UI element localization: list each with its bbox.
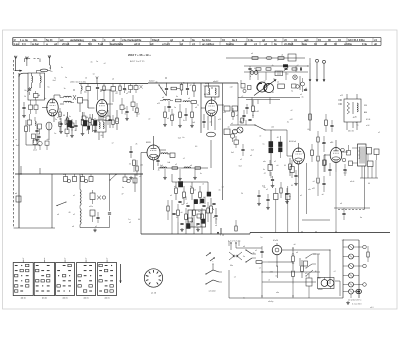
- switch contact diag: [56, 202, 66, 207]
- svg-text:u.: u.: [46, 43, 49, 46]
- svg-text:a0a02: a0a02: [213, 81, 218, 83]
- top right rail: [226, 57, 305, 59]
- switch arm diagonal: [158, 84, 166, 96]
- svg-text:a0: a0: [170, 195, 172, 197]
- svg-text:1a: 1a: [65, 77, 67, 79]
- svg-text:40: 40: [355, 117, 357, 119]
- labels T3: [340, 95, 367, 114]
- svg-text:a80: a80: [330, 142, 333, 144]
- tube V5 leads: [287, 130, 299, 178]
- switch wafer S1: [13, 258, 33, 300]
- svg-text:u0: u0: [305, 88, 307, 90]
- svg-text:0c: 0c: [243, 298, 245, 300]
- svg-text:u2: u2: [297, 65, 299, 67]
- cap Cv1: [125, 106, 128, 117]
- svg-text:u0: u0: [104, 120, 106, 122]
- svg-text:0u 4: 0u 4: [232, 39, 238, 42]
- capacitor C15b: [167, 101, 170, 112]
- svg-text:2k: 2k: [241, 193, 243, 195]
- svg-text:c2: c2: [183, 158, 185, 160]
- svg-text:0c: 0c: [134, 182, 136, 184]
- svg-text:uc cq04uc: uc cq04uc: [202, 43, 215, 46]
- svg-text:u2: u2: [73, 214, 75, 216]
- svg-text:40c.: 40c.: [33, 39, 38, 42]
- labels mains: [230, 246, 257, 267]
- labels under tubes: [57, 108, 136, 123]
- resistor R14b: [176, 99, 182, 102]
- tuning gang C30: [254, 79, 277, 95]
- tube V4 EF89: [147, 145, 160, 160]
- label V4: [146, 142, 152, 144]
- power transformer T5: [318, 278, 335, 289]
- cap column x109: [108, 174, 111, 228]
- svg-text:a0: a0: [251, 53, 253, 55]
- svg-text:a1: a1: [300, 195, 302, 197]
- svg-text:0a: 0a: [360, 217, 362, 219]
- wire det right rail: [207, 182, 209, 196]
- svg-text:4a2: 4a2: [16, 145, 19, 147]
- resistor R15b: [191, 101, 197, 104]
- resistor R16b: [164, 106, 167, 123]
- svg-text:40: 40: [271, 271, 273, 273]
- svg-text:2k: 2k: [85, 78, 87, 80]
- svg-text:e4: e4: [342, 240, 344, 242]
- capacitor C14: [186, 83, 189, 96]
- electrolytic blob 2: [83, 121, 87, 127]
- resistor R19b: [191, 104, 194, 124]
- electrolytic blob 3: [94, 121, 97, 126]
- svg-text:2016 Y + 06 + 19 +: 2016 Y + 06 + 19 +: [128, 53, 151, 57]
- parts row 136: [32, 133, 41, 143]
- labels rail parts: [84, 91, 131, 94]
- svg-text:1a: 1a: [49, 68, 51, 70]
- box right of V4: [170, 153, 175, 158]
- resistor R31: [289, 158, 292, 176]
- cap Cg3: [285, 188, 289, 203]
- svg-text:an m: an m: [21, 298, 26, 300]
- box right of coil upper: [89, 190, 106, 208]
- svg-text:u0u0p: u0u0p: [268, 301, 273, 303]
- svg-text:0u4: 0u4: [239, 166, 242, 168]
- mains switch S7: [245, 249, 256, 262]
- dark blob d3: [194, 200, 198, 204]
- wire verticals under rail: [88, 93, 113, 108]
- svg-text:4u: 4u: [197, 228, 199, 230]
- svg-text:4u: 4u: [61, 67, 63, 69]
- svg-text:c0-40q4: c0-40q4: [284, 43, 294, 46]
- wire bus drops left: [21, 166, 40, 174]
- svg-text:1 qu: 1 qu: [14, 43, 20, 46]
- svg-text:u0: u0: [313, 181, 315, 183]
- grid label t1: [44, 98, 47, 100]
- heater taps: [356, 245, 366, 293]
- thermal switch S8: [306, 254, 317, 269]
- svg-text:0 4u: 0 4u: [362, 43, 367, 46]
- svg-text:a024 u02: a024 u02: [252, 111, 259, 113]
- bus right bottom: [250, 232, 390, 234]
- svg-text:a0 u2: a0 u2: [33, 150, 37, 152]
- capacitor C13: [165, 83, 168, 96]
- svg-text:a0: a0: [243, 246, 245, 248]
- svg-text:b: b: [107, 258, 108, 260]
- coil L2: [40, 73, 41, 88]
- tube socket pinout diagram: [144, 269, 162, 295]
- resistor R1: [34, 91, 39, 100]
- svg-text:c2: c2: [269, 272, 271, 274]
- AM coil lower: [73, 206, 81, 228]
- svg-text:0u4: 0u4: [178, 138, 181, 140]
- svg-text:0u4: 0u4: [167, 162, 170, 164]
- svg-text:0u4: 0u4: [251, 150, 254, 152]
- svg-text:uw4u0a4uq: uw4u0a4uq: [70, 39, 84, 42]
- svg-text:1a: 1a: [50, 98, 52, 100]
- dark blob d1: [179, 182, 183, 188]
- resistor R17b: [171, 109, 174, 126]
- label transformer: [276, 289, 323, 294]
- svg-text:a4 a0: a4 a0: [350, 181, 354, 183]
- bottom right text: [348, 300, 374, 310]
- svg-text:2x: 2x: [55, 119, 57, 121]
- labels rail left: [70, 81, 86, 83]
- dark chain 1: [269, 142, 273, 153]
- labels det: [231, 111, 259, 125]
- antenna A1: [14, 56, 17, 71]
- svg-text:2k: 2k: [86, 130, 88, 132]
- svg-text:40a: 40a: [230, 265, 233, 267]
- svg-text:e4: e4: [340, 203, 342, 205]
- tube V3 connects: [201, 97, 224, 126]
- svg-text:u0: u0: [294, 244, 296, 246]
- svg-text:4u: 4u: [287, 121, 289, 123]
- resistor R39: [367, 246, 369, 262]
- svg-text:0u: 0u: [69, 116, 71, 118]
- T3 leads: [347, 94, 357, 130]
- svg-text:u2: u2: [277, 81, 279, 83]
- vertical rail mid: [200, 83, 202, 133]
- dark blob d2: [207, 192, 211, 196]
- svg-text:a1: a1: [196, 225, 198, 227]
- svg-text:0u4: 0u4: [137, 113, 140, 115]
- tube V4 leads: [141, 136, 166, 170]
- svg-text:a0: a0: [228, 126, 230, 128]
- svg-text:u2: u2: [129, 222, 131, 224]
- resistor R20: [251, 53, 258, 59]
- svg-text:47: 47: [277, 60, 279, 62]
- box Ru8: [106, 110, 110, 125]
- svg-text:c2: c2: [268, 280, 270, 282]
- svg-text:1!: 1!: [14, 39, 16, 42]
- ground g11: [163, 123, 167, 126]
- svg-text:40: 40: [85, 123, 87, 125]
- coil L4a: [160, 99, 173, 100]
- svg-text:0u4: 0u4: [181, 204, 184, 206]
- resistor R38: [301, 260, 304, 278]
- svg-text:4u: 4u: [176, 96, 178, 98]
- svg-text:B41 T 1 tri P TO: B41 T 1 tri P TO: [130, 60, 145, 63]
- svg-text:u0 0: u0 0: [370, 307, 374, 309]
- resistor R12: [180, 83, 183, 96]
- wire drops to bus: [276, 172, 336, 233]
- svg-text:v0 tq4: v0 tq4: [62, 43, 70, 46]
- svg-text:e2: e2: [274, 161, 276, 163]
- cap Cu1: [74, 120, 77, 131]
- svg-text:47: 47: [264, 173, 266, 175]
- voltage selector M: [272, 240, 330, 284]
- svg-text:2u: 2u: [134, 112, 136, 114]
- ground g3: [70, 134, 74, 137]
- svg-text:a12: a12: [340, 95, 343, 97]
- wire v5 to bottom: [302, 163, 330, 220]
- svg-text:uq4: uq4: [304, 39, 309, 42]
- svg-text:4u: 4u: [219, 189, 221, 191]
- svg-text:b: b: [65, 258, 66, 260]
- electrolytic C5: [88, 121, 90, 134]
- wire v4 region verticals: [141, 84, 223, 201]
- svg-text:5q 44: 5q 44: [46, 39, 53, 42]
- wire t5 links: [316, 254, 340, 296]
- svg-text:u0: u0: [182, 198, 184, 200]
- svg-text:a0a: a0a: [263, 161, 266, 163]
- resistor R4: [91, 114, 94, 132]
- svg-text:47: 47: [161, 88, 163, 90]
- wire rail bend: [19, 73, 28, 77]
- svg-text:u2: u2: [222, 187, 224, 189]
- svg-text:a0: a0: [303, 153, 305, 155]
- svg-text:u2: u2: [175, 164, 177, 166]
- detector network: [172, 174, 208, 231]
- switch wafer S3: [56, 258, 75, 300]
- lamp LP1: [283, 65, 297, 80]
- title text 2016 Y + 06 + 19 +: [128, 53, 151, 57]
- svg-text:4u: 4u: [272, 65, 274, 67]
- box Rr3: [111, 84, 116, 96]
- svg-text:42: 42: [176, 217, 178, 219]
- svg-text:an m: an m: [105, 298, 110, 300]
- dark blob d5: [187, 224, 191, 229]
- rectifier plate: [306, 274, 312, 292]
- svg-text:c: c: [213, 261, 214, 263]
- small tube can V1b: [46, 122, 52, 130]
- svg-text:2k: 2k: [129, 164, 131, 166]
- resistor R23: [266, 68, 271, 70]
- ground g17: [294, 182, 298, 185]
- wire af rail: [230, 120, 287, 131]
- svg-text:a4: a4: [167, 118, 169, 120]
- svg-text:a0b0 4 u0a 4 0u b0a: a0b0 4 u0a 4 0u b0a: [70, 81, 86, 83]
- wire v2 anode up: [101, 90, 113, 112]
- wire rail to detector: [237, 83, 239, 120]
- svg-text:4A3 45.4 040u: 4A3 45.4 040u: [348, 39, 365, 42]
- fuse F1: [292, 248, 295, 270]
- resistor R18b: [179, 104, 182, 124]
- ground g5: [35, 138, 39, 141]
- svg-text:0u4: 0u4: [239, 121, 242, 123]
- coil assembly L3: [96, 116, 106, 132]
- arrow marks above tone switch: [206, 252, 215, 261]
- label V6: [330, 142, 333, 144]
- svg-text:0a: 0a: [198, 211, 200, 213]
- svg-text:u4: u4: [186, 203, 188, 205]
- svg-text:AM: AM: [364, 111, 367, 114]
- resistor R35 on bus: [235, 220, 237, 231]
- resistor zigzag right of V4: [161, 153, 170, 154]
- svg-text:0a4: 0a4: [231, 152, 234, 154]
- svg-text:a4 a0a0: a4 a0a0: [209, 291, 216, 293]
- svg-text:0e: 0e: [203, 197, 205, 199]
- arrow left rail: [15, 70, 23, 72]
- svg-text:0u4: 0u4: [286, 74, 289, 76]
- labels out chains: [250, 155, 311, 191]
- dashed frame antenna coils: [25, 59, 41, 63]
- svg-text:FM: FM: [364, 105, 367, 107]
- svg-text:e2 (2.4) 6.3V u: e2 (2.4) 6.3V u: [348, 300, 361, 302]
- IF transformer T1: [60, 95, 83, 112]
- wires T4: [338, 148, 378, 210]
- labels bus right: [300, 195, 362, 219]
- switch bank arrow: [119, 264, 121, 283]
- trimmer C20: [284, 67, 289, 71]
- svg-text:4 4u: 4 4u: [248, 39, 253, 42]
- ground gv2: [93, 129, 97, 132]
- svg-text:u 0 w4: u 0 w4: [162, 43, 170, 46]
- svg-text:0c: 0c: [216, 219, 218, 221]
- labels chain: [160, 164, 202, 175]
- svg-text:4uu0q4u0u: 4uu0q4u0u: [110, 43, 124, 46]
- svg-text:1a: 1a: [64, 88, 66, 90]
- svg-text:u0a: u0a: [308, 189, 311, 191]
- labels ps mid: [296, 252, 308, 275]
- ground g12: [178, 124, 182, 127]
- svg-text:M a24: M a24: [273, 240, 278, 242]
- svg-text:1a: 1a: [197, 105, 199, 107]
- dark blob d4: [201, 199, 204, 203]
- svg-text:a0 1: a0 1: [63, 174, 66, 176]
- vertical x135 part: [133, 174, 137, 192]
- svg-text:a12: a12: [223, 112, 226, 114]
- svg-text:40: 40: [368, 183, 370, 185]
- svg-text:u 044u: u 044u: [344, 43, 352, 46]
- svg-text:a12: a12: [271, 126, 274, 128]
- svg-text:40: 40: [63, 115, 65, 117]
- mains plug frame: [229, 252, 242, 260]
- svg-text:0u4: 0u4: [116, 121, 119, 123]
- relay detail: [300, 254, 316, 277]
- bus parts right: [122, 174, 130, 189]
- wire main bus: [15, 173, 143, 175]
- svg-text:47: 47: [122, 193, 124, 195]
- capacitor C29: [260, 246, 263, 258]
- resistor R18: [136, 160, 138, 176]
- chain drops: [163, 169, 197, 180]
- svg-text:b: b: [86, 258, 87, 260]
- capacitor C16b: [184, 108, 187, 121]
- svg-text:e4: e4: [116, 118, 118, 120]
- box Rv2: [131, 95, 135, 111]
- tube V3 ECH81: [206, 100, 218, 116]
- svg-text:c4v.chu4uqk04u: c4v.chu4uqk04u: [122, 39, 142, 42]
- svg-text:a12: a12: [218, 119, 221, 121]
- box pair right of V3: [224, 106, 238, 135]
- svg-text:0c: 0c: [183, 120, 185, 122]
- svg-text:0c: 0c: [276, 276, 278, 278]
- label w left: [16, 139, 19, 147]
- svg-text:4a: 4a: [81, 174, 83, 176]
- svg-text:0u4: 0u4: [344, 172, 347, 174]
- resistor R13: [193, 83, 196, 98]
- resistor Rr1: [81, 84, 82, 95]
- wire frame mid-bottom: [220, 228, 222, 234]
- left rail small box: [15, 193, 21, 202]
- svg-text:b: b: [220, 235, 221, 237]
- right chains x324: [322, 136, 326, 192]
- capacitor C27: [330, 120, 333, 132]
- speaker boxes: [367, 148, 380, 167]
- svg-text:u0: u0: [93, 74, 95, 76]
- svg-text:a12: a12: [140, 165, 143, 167]
- tube V1 pins: [42, 104, 64, 122]
- svg-text:e4: e4: [194, 189, 196, 191]
- rail AM top: [148, 81, 238, 84]
- labels tuner: [250, 69, 302, 94]
- svg-text:a12: a12: [312, 188, 315, 190]
- svg-text:1 u. 4u: 1 u. 4u: [20, 39, 28, 42]
- resistor Rv3: [136, 103, 138, 117]
- capacitor C18: [214, 208, 217, 224]
- tube V6 leads: [324, 140, 348, 172]
- antenna A3 small: [96, 77, 98, 84]
- wire coil bottom: [80, 228, 110, 232]
- capacitor Cr1: [96, 84, 99, 94]
- svg-text:u2: u2: [139, 176, 141, 178]
- svg-text:4u: 4u: [37, 137, 39, 139]
- tuning gang frame: [238, 98, 300, 100]
- svg-text:c2: c2: [234, 276, 236, 278]
- electrolytic blob 1: [68, 121, 72, 128]
- svg-text:1x0: 1x0: [85, 117, 88, 119]
- svg-text:an m: an m: [63, 298, 68, 300]
- ground g1: [22, 114, 26, 117]
- box Rr2: [86, 84, 91, 95]
- right chains x318: [317, 131, 319, 196]
- svg-text:0a0a0: 0a0a0: [149, 81, 154, 83]
- svg-text:u2: u2: [126, 93, 128, 95]
- box frame detector: [188, 210, 206, 227]
- wire ps bottom bus: [229, 262, 343, 298]
- volume pot P1: [210, 198, 214, 222]
- wire T1 to V2 grid: [83, 100, 95, 108]
- ground gv1: [125, 117, 129, 120]
- capacitor C26: [328, 163, 331, 176]
- svg-text:e4: e4: [210, 121, 212, 123]
- label row mid-bottom: [228, 241, 241, 243]
- svg-text:1a: 1a: [128, 219, 130, 221]
- svg-text:4u: 4u: [115, 93, 117, 95]
- svg-text:0c: 0c: [125, 114, 127, 116]
- svg-text:5a 4.0u: 5a 4.0u: [202, 39, 211, 42]
- svg-text:47: 47: [254, 68, 256, 70]
- cluster labels: [170, 195, 215, 227]
- svg-text:e4: e4: [57, 214, 59, 216]
- antenna A2: [48, 55, 51, 69]
- svg-text:EL84 a0: EL84 a0: [289, 141, 296, 143]
- svg-text:a1 16: a1 16: [151, 293, 157, 295]
- svg-text:40: 40: [59, 115, 61, 117]
- svg-text:5a: 5a: [205, 212, 207, 214]
- svg-text:40: 40: [277, 137, 279, 139]
- svg-text:2k: 2k: [136, 144, 138, 146]
- trimmer C1: [25, 87, 33, 95]
- subtitle label: [130, 60, 145, 63]
